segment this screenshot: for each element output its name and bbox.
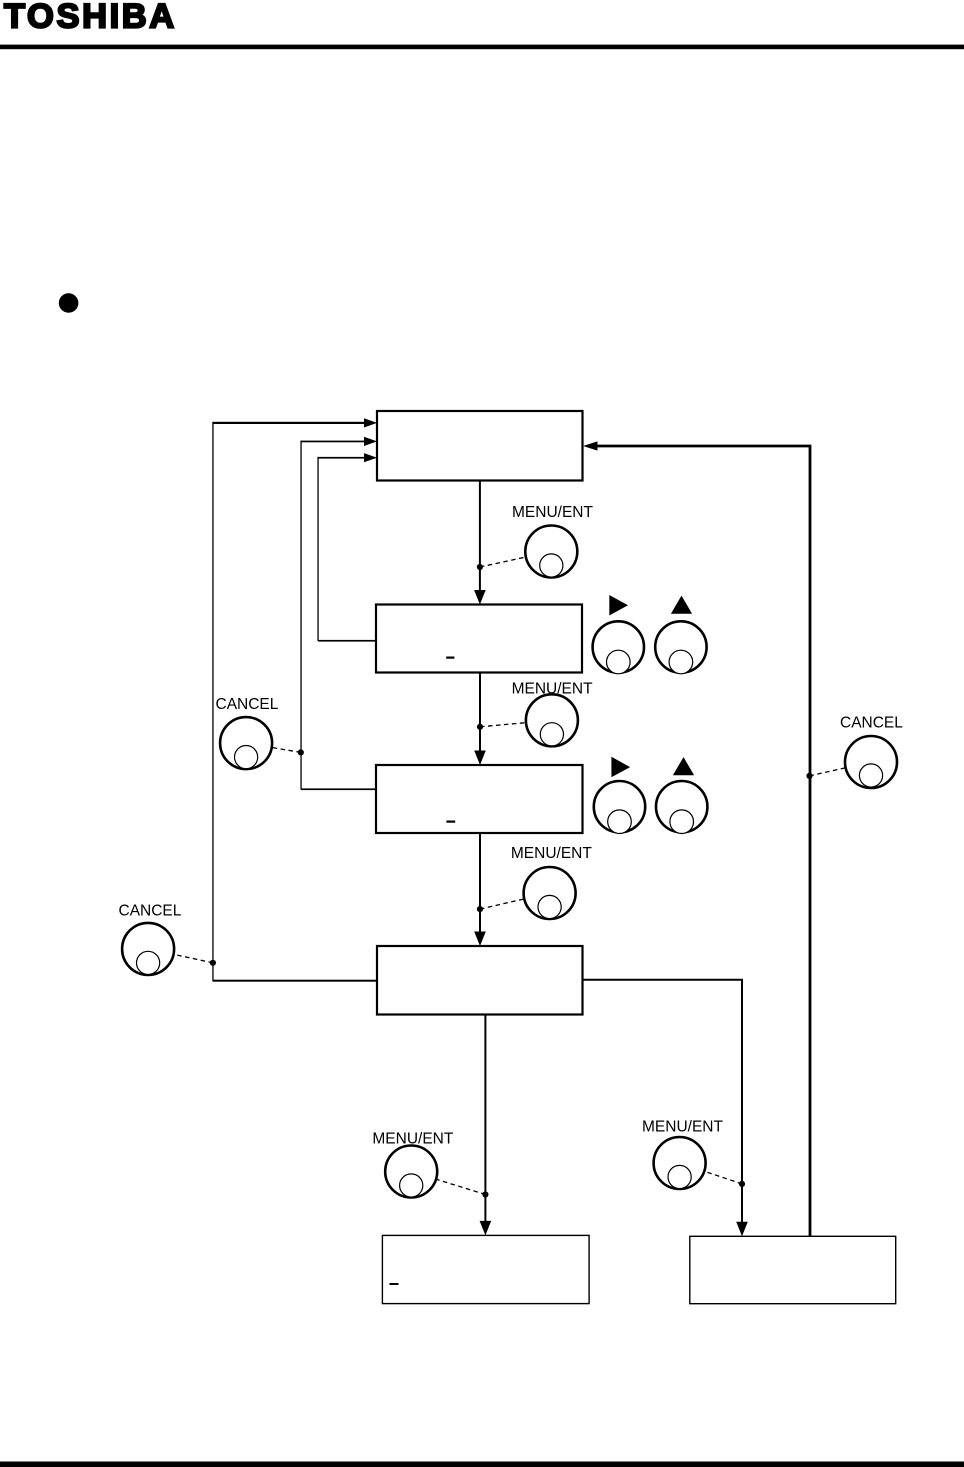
- dashed leader D3 to M3: [480, 893, 550, 909]
- svg-text:MENU/ENT: MENU/ENT: [512, 681, 593, 698]
- dashed leader D4 to CANCEL button CA1: [246, 743, 301, 752]
- CANCEL button CA2: [122, 923, 174, 975]
- box B3: [376, 765, 583, 833]
- right-arrow button AR1: [593, 595, 644, 674]
- CANCEL button CA3: [845, 736, 897, 788]
- node dot D5 on loop A: [210, 960, 216, 966]
- svg-text:MENU/ENT: MENU/ENT: [512, 504, 593, 521]
- box B6 (bottom right): [690, 1236, 896, 1303]
- svg-text:TOSHIBA: TOSHIBA: [4, 0, 177, 35]
- svg-text:CANCEL: CANCEL: [119, 903, 182, 920]
- box B4: [377, 946, 583, 1015]
- dashed leader D1 to MENU/ENT button M1: [480, 552, 551, 568]
- up-arrow button AU1: [655, 596, 706, 674]
- dashed leader D5 to CA2: [148, 949, 213, 963]
- right-arrow button AR2: [594, 757, 645, 834]
- MENU/ENT button M2: [526, 694, 578, 746]
- wire W2: B2 bottom to B3 top: [479, 673, 481, 754]
- MENU/ENT button M4: [385, 1146, 437, 1198]
- box B5 (bottom left): [382, 1235, 589, 1303]
- wire W4: B4 bottom to B5 top: [484, 1015, 486, 1224]
- wire loop C: B2 left edge back to B1 left (inner): [318, 640, 376, 642]
- dashed leader D2 to M2: [480, 720, 552, 727]
- MENU/ENT button M3: [524, 867, 576, 919]
- up-arrow button AU2: [656, 757, 707, 833]
- wire W3: B3 bottom to B4 top: [479, 833, 481, 934]
- cursor underscore in B5: [390, 1283, 399, 1285]
- header rule: [0, 45, 964, 50]
- node dot D6 on W6: [806, 773, 812, 779]
- dashed leader D7 to M4: [411, 1172, 485, 1195]
- node dot D8 on W5: [739, 1181, 745, 1187]
- node dot D7 on W4: [482, 1191, 488, 1197]
- wire W1: B1 bottom to B2 top: [479, 481, 481, 593]
- cursor underscore in B3: [446, 821, 455, 823]
- footer rule: [0, 1462, 964, 1467]
- wire W5: B4 right branch to B6 top: [583, 980, 743, 1225]
- dashed leader D6 to CA3: [810, 762, 872, 776]
- svg-text:CANCEL: CANCEL: [840, 715, 903, 732]
- cursor underscore in B2: [446, 657, 454, 659]
- node dot D1 on W1: [477, 564, 483, 570]
- MENU/ENT button M5: [654, 1137, 706, 1189]
- CANCEL button CA1: [220, 717, 272, 769]
- box B2: [376, 605, 582, 673]
- svg-text:CANCEL: CANCEL: [216, 696, 279, 713]
- node dot D2 on W2: [477, 724, 483, 730]
- svg-text:MENU/ENT: MENU/ENT: [372, 1131, 453, 1148]
- wire loop B: B3 left edge back to B1 left (middle): [301, 788, 376, 790]
- box B1 (top state box): [377, 411, 583, 481]
- node dot D3 on W3: [477, 906, 483, 912]
- node dot D4 on loop B: [298, 749, 304, 755]
- wire W6: B6 top return to B1 right edge: [596, 446, 810, 1236]
- wire loop A: B4 left edge back to B1 left (outer): [213, 980, 377, 982]
- bullet: [59, 293, 79, 313]
- svg-text:MENU/ENT: MENU/ENT: [642, 1119, 723, 1136]
- svg-text:MENU/ENT: MENU/ENT: [511, 845, 592, 862]
- MENU/ENT button M1: [525, 526, 577, 578]
- dashed leader D8 to M5: [680, 1163, 742, 1184]
